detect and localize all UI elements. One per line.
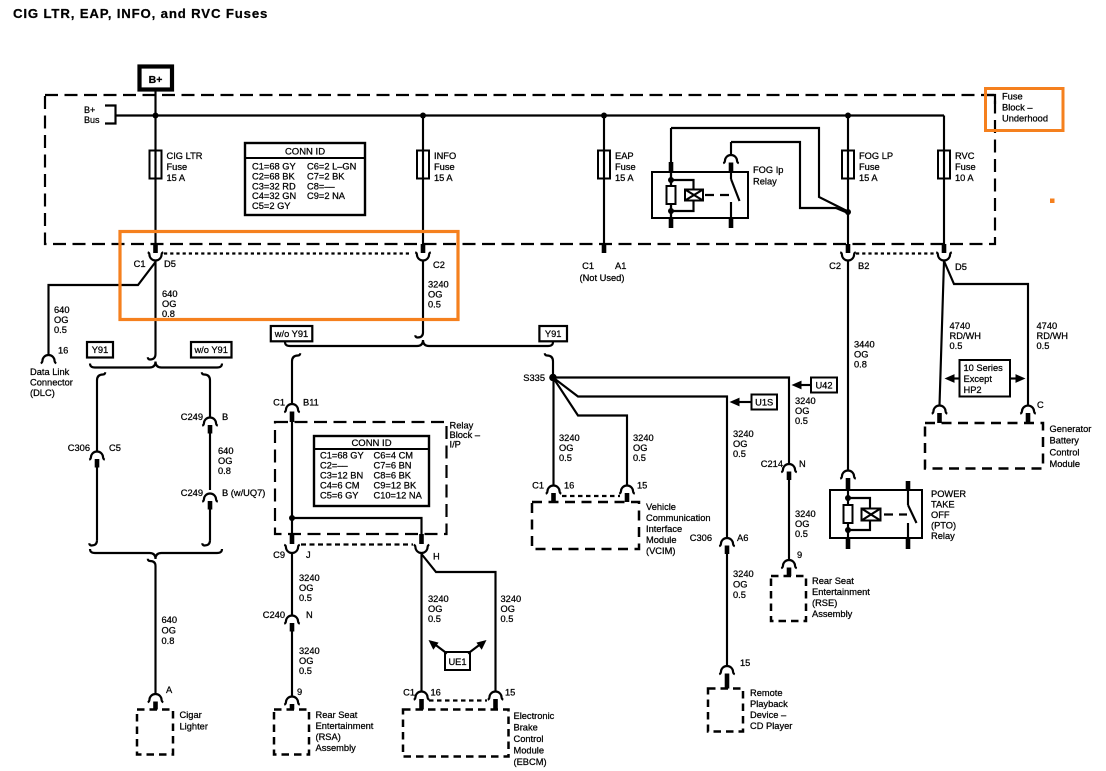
svg-text:C2: C2 xyxy=(829,261,841,271)
svg-text:10 A: 10 A xyxy=(955,173,974,183)
svg-text:0.5: 0.5 xyxy=(559,453,572,463)
svg-text:15: 15 xyxy=(505,688,515,698)
svg-text:Device –: Device – xyxy=(750,710,787,720)
svg-text:Y91: Y91 xyxy=(92,345,109,355)
svg-text:Data Link: Data Link xyxy=(30,367,70,377)
svg-text:Communication: Communication xyxy=(646,513,711,523)
svg-text:N: N xyxy=(799,459,806,469)
svg-text:S335: S335 xyxy=(523,373,545,383)
svg-text:OG: OG xyxy=(733,580,747,590)
svg-text:I/P: I/P xyxy=(450,440,461,450)
svg-text:OG: OG xyxy=(795,406,809,416)
svg-text:0.5: 0.5 xyxy=(633,453,646,463)
svg-text:Rear Seat: Rear Seat xyxy=(812,576,854,586)
svg-text:Generator: Generator xyxy=(1050,424,1092,434)
svg-text:Fuse: Fuse xyxy=(955,162,976,172)
svg-text:C249: C249 xyxy=(181,488,203,498)
svg-text:15 A: 15 A xyxy=(167,173,186,183)
svg-text:C2=––: C2=–– xyxy=(320,461,348,471)
svg-text:0.5: 0.5 xyxy=(1037,341,1050,351)
svg-text:w/o Y91: w/o Y91 xyxy=(193,345,227,355)
svg-text:U1S: U1S xyxy=(755,398,773,408)
svg-text:0.5: 0.5 xyxy=(733,590,746,600)
svg-text:16: 16 xyxy=(431,688,441,698)
svg-text:Fuse: Fuse xyxy=(167,162,188,172)
svg-text:D5: D5 xyxy=(955,262,967,272)
svg-text:Bus: Bus xyxy=(84,115,100,125)
svg-text:OG: OG xyxy=(501,604,515,614)
svg-text:15 A: 15 A xyxy=(859,173,878,183)
svg-text:C9: C9 xyxy=(273,550,285,560)
svg-text:C7=2 BK: C7=2 BK xyxy=(307,171,345,181)
svg-text:OG: OG xyxy=(428,604,442,614)
svg-text:Control: Control xyxy=(514,734,544,744)
svg-text:RD/WH: RD/WH xyxy=(950,331,982,341)
svg-text:10 Series: 10 Series xyxy=(964,363,1004,373)
svg-text:C214: C214 xyxy=(761,459,783,469)
svg-text:A6: A6 xyxy=(737,533,748,543)
svg-text:w/o Y91: w/o Y91 xyxy=(274,329,308,339)
svg-text:RD/WH: RD/WH xyxy=(1037,331,1069,341)
svg-text:Except: Except xyxy=(964,374,993,384)
svg-text:3240: 3240 xyxy=(428,280,449,290)
svg-text:INFO: INFO xyxy=(434,151,456,161)
svg-text:Y91: Y91 xyxy=(545,329,562,339)
svg-text:C306: C306 xyxy=(68,443,90,453)
svg-text:3240: 3240 xyxy=(501,594,522,604)
svg-text:C9=2 NA: C9=2 NA xyxy=(307,191,346,201)
svg-text:HP2: HP2 xyxy=(964,385,982,395)
svg-text:C4=32 GN: C4=32 GN xyxy=(252,191,296,201)
svg-text:OFF: OFF xyxy=(931,510,950,520)
svg-text:EAP: EAP xyxy=(615,151,634,161)
svg-text:TAKE: TAKE xyxy=(931,500,955,510)
svg-text:4740: 4740 xyxy=(950,321,971,331)
svg-text:3240: 3240 xyxy=(795,396,816,406)
svg-text:Battery: Battery xyxy=(1050,436,1080,446)
svg-text:0.5: 0.5 xyxy=(950,341,963,351)
svg-text:B11: B11 xyxy=(303,398,319,408)
svg-text:Fuse: Fuse xyxy=(1002,92,1023,102)
svg-text:C9=12 BK: C9=12 BK xyxy=(374,481,417,491)
svg-text:9: 9 xyxy=(297,687,302,697)
svg-text:OG: OG xyxy=(854,350,868,360)
svg-text:0.5: 0.5 xyxy=(795,416,808,426)
svg-text:Relay: Relay xyxy=(753,177,777,187)
svg-text:A1: A1 xyxy=(615,261,626,271)
svg-text:D5: D5 xyxy=(164,259,176,269)
svg-text:OG: OG xyxy=(559,443,573,453)
svg-text:0.5: 0.5 xyxy=(428,300,441,310)
svg-text:OG: OG xyxy=(795,519,809,529)
svg-text:0.5: 0.5 xyxy=(428,614,441,624)
svg-text:Entertainment: Entertainment xyxy=(812,587,870,597)
svg-text:CIG LTR, EAP, INFO, and RVC Fu: CIG LTR, EAP, INFO, and RVC Fuses xyxy=(13,6,268,21)
svg-text:C5=6 GY: C5=6 GY xyxy=(320,491,359,501)
svg-text:9: 9 xyxy=(797,550,802,560)
svg-text:C1=68 GY: C1=68 GY xyxy=(320,451,364,461)
svg-text:U42: U42 xyxy=(815,381,832,391)
svg-text:(VCIM): (VCIM) xyxy=(646,546,675,556)
svg-text:3240: 3240 xyxy=(428,594,449,604)
svg-text:15 A: 15 A xyxy=(434,173,453,183)
svg-text:C2=68 BK: C2=68 BK xyxy=(252,171,295,181)
svg-text:Vehicle: Vehicle xyxy=(646,502,676,512)
svg-text:Electronic: Electronic xyxy=(514,711,555,721)
svg-text:Rear Seat: Rear Seat xyxy=(316,710,358,720)
svg-text:Relay: Relay xyxy=(931,531,955,541)
svg-text:Cigar: Cigar xyxy=(180,710,202,720)
svg-text:Brake: Brake xyxy=(514,723,538,733)
svg-text:Block –: Block – xyxy=(450,430,481,440)
svg-text:C8=6 BK: C8=6 BK xyxy=(374,471,412,481)
svg-text:3240: 3240 xyxy=(733,569,754,579)
svg-text:OG: OG xyxy=(299,583,313,593)
svg-text:Connector: Connector xyxy=(30,378,73,388)
svg-text:15 A: 15 A xyxy=(615,173,634,183)
svg-text:FOG Ip: FOG Ip xyxy=(753,165,783,175)
svg-text:POWER: POWER xyxy=(931,489,966,499)
svg-text:Relay: Relay xyxy=(450,421,474,431)
svg-text:B+: B+ xyxy=(149,74,163,86)
svg-text:Fuse: Fuse xyxy=(615,162,636,172)
svg-text:Assembly: Assembly xyxy=(812,609,853,619)
svg-text:3240: 3240 xyxy=(795,509,816,519)
svg-text:(EBCM): (EBCM) xyxy=(514,757,547,767)
svg-text:Control: Control xyxy=(1050,447,1080,457)
svg-text:640: 640 xyxy=(162,615,178,625)
svg-text:640: 640 xyxy=(162,289,178,299)
svg-text:C249: C249 xyxy=(181,412,203,422)
svg-text:B2: B2 xyxy=(858,261,869,271)
svg-text:C6=2 L–GN: C6=2 L–GN xyxy=(307,162,356,172)
svg-text:640: 640 xyxy=(218,446,234,456)
svg-text:C5=2 GY: C5=2 GY xyxy=(252,201,291,211)
svg-text:CIG LTR: CIG LTR xyxy=(167,151,203,161)
svg-text:CONN ID: CONN ID xyxy=(285,147,325,158)
svg-text:A: A xyxy=(166,685,173,695)
svg-text:Module: Module xyxy=(1050,459,1081,469)
svg-text:Assembly: Assembly xyxy=(316,743,357,753)
svg-text:C1: C1 xyxy=(532,481,544,491)
svg-text:Lighter: Lighter xyxy=(180,722,208,732)
svg-text:C5: C5 xyxy=(109,443,121,453)
svg-text:15: 15 xyxy=(740,658,750,668)
svg-text:B+: B+ xyxy=(84,105,95,115)
svg-text:0.5: 0.5 xyxy=(299,593,312,603)
svg-text:C4=6 CM: C4=6 CM xyxy=(320,481,360,491)
svg-text:C1: C1 xyxy=(403,688,415,698)
svg-text:Interface: Interface xyxy=(646,524,682,534)
svg-text:Fuse: Fuse xyxy=(859,162,880,172)
svg-text:C3=32 RD: C3=32 RD xyxy=(252,181,296,191)
svg-text:Module: Module xyxy=(646,535,677,545)
svg-text:OG: OG xyxy=(54,315,68,325)
svg-text:C10=12 NA: C10=12 NA xyxy=(374,491,423,501)
svg-text:N: N xyxy=(306,610,313,620)
svg-text:CONN ID: CONN ID xyxy=(351,438,391,449)
svg-text:0.5: 0.5 xyxy=(795,529,808,539)
svg-text:Remote: Remote xyxy=(750,688,783,698)
svg-text:Entertainment: Entertainment xyxy=(316,721,374,731)
svg-text:3240: 3240 xyxy=(733,429,754,439)
svg-text:0.5: 0.5 xyxy=(733,449,746,459)
svg-text:Fuse: Fuse xyxy=(434,162,455,172)
svg-text:C1: C1 xyxy=(273,398,285,408)
svg-text:C1=68 GY: C1=68 GY xyxy=(252,162,296,172)
svg-text:(DLC): (DLC) xyxy=(30,388,55,398)
svg-text:C8=––: C8=–– xyxy=(307,181,335,191)
svg-text:3240: 3240 xyxy=(299,573,320,583)
svg-text:C240: C240 xyxy=(263,610,285,620)
svg-text:640: 640 xyxy=(54,305,70,315)
svg-text:OG: OG xyxy=(733,439,747,449)
svg-text:OG: OG xyxy=(218,456,232,466)
svg-text:0.5: 0.5 xyxy=(299,666,312,676)
svg-text:0.5: 0.5 xyxy=(54,325,67,335)
svg-text:C306: C306 xyxy=(690,533,712,543)
svg-text:4740: 4740 xyxy=(1037,321,1058,331)
svg-text:Module: Module xyxy=(514,746,545,756)
svg-text:0.8: 0.8 xyxy=(854,360,867,370)
svg-text:3240: 3240 xyxy=(559,433,580,443)
svg-text:C7=6 BN: C7=6 BN xyxy=(374,461,412,471)
svg-text:OG: OG xyxy=(162,626,176,636)
svg-text:16: 16 xyxy=(58,346,68,356)
svg-text:C1: C1 xyxy=(134,259,146,269)
svg-text:OG: OG xyxy=(428,290,442,300)
svg-text:UE1: UE1 xyxy=(448,657,466,667)
svg-text:B (w/UQ7): B (w/UQ7) xyxy=(222,488,265,498)
svg-text:C3=12 BN: C3=12 BN xyxy=(320,471,363,481)
svg-text:15: 15 xyxy=(637,481,647,491)
svg-text:OG: OG xyxy=(299,656,313,666)
svg-text:C1: C1 xyxy=(582,261,594,271)
svg-text:OG: OG xyxy=(162,299,176,309)
svg-text:0.8: 0.8 xyxy=(218,466,231,476)
svg-text:J: J xyxy=(306,550,311,560)
svg-text:RVC: RVC xyxy=(955,151,975,161)
svg-text:Block –: Block – xyxy=(1002,103,1033,113)
svg-text:0.8: 0.8 xyxy=(162,309,175,319)
svg-text:Underhood: Underhood xyxy=(1002,114,1048,124)
svg-text:0.8: 0.8 xyxy=(162,636,175,646)
svg-text:3240: 3240 xyxy=(299,646,320,656)
svg-text:CD Player: CD Player xyxy=(750,721,792,731)
svg-text:C6=4 CM: C6=4 CM xyxy=(374,451,414,461)
svg-text:FOG LP: FOG LP xyxy=(859,151,893,161)
svg-text:(Not Used): (Not Used) xyxy=(580,273,625,283)
svg-text:(PTO): (PTO) xyxy=(931,521,956,531)
svg-text:C2: C2 xyxy=(433,260,445,270)
svg-text:C: C xyxy=(1037,400,1044,410)
svg-text:(RSA): (RSA) xyxy=(316,732,341,742)
svg-text:16: 16 xyxy=(564,481,574,491)
svg-text:Playback: Playback xyxy=(750,699,788,709)
svg-text:3440: 3440 xyxy=(854,340,875,350)
svg-text:B: B xyxy=(222,412,228,422)
svg-text:3240: 3240 xyxy=(633,433,654,443)
svg-text:H: H xyxy=(433,552,440,562)
svg-text:(RSE): (RSE) xyxy=(812,598,837,608)
svg-text:0.5: 0.5 xyxy=(501,614,514,624)
svg-text:OG: OG xyxy=(633,443,647,453)
